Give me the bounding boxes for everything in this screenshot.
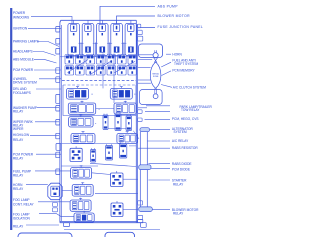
inter-slot wire bbox=[123, 43, 125, 57]
svg-text:ABS PUMP: ABS PUMP bbox=[158, 5, 179, 9]
mini fuse r1c2 bbox=[76, 55, 85, 65]
leader fuel anti theft bbox=[161, 62, 171, 67]
mega fuse element (lens) bbox=[150, 62, 161, 88]
mini fuse r1c4 bbox=[97, 55, 106, 65]
mini fuse r2c3 bbox=[86, 66, 95, 76]
fuse box bottom edge bbox=[60, 220, 138, 222]
wire to ABS PUMP bbox=[100, 6, 155, 24]
fuse block I (fog isolation) bbox=[74, 213, 94, 222]
inter-slot wire bbox=[94, 43, 96, 57]
mini fuse r1c1 bbox=[65, 55, 74, 65]
left edge tab bbox=[56, 39, 60, 45]
svg-text:SYSTEM: SYSTEM bbox=[174, 130, 187, 134]
svg-text:BLOWER MOTOR: BLOWER MOTOR bbox=[158, 14, 191, 18]
svg-text:RABS RESISTOR: RABS RESISTOR bbox=[172, 146, 198, 150]
fuse junction connector tabs bbox=[138, 24, 141, 28]
leader 4 wheel drive bbox=[39, 78, 61, 80]
mini fuse r2c4 bbox=[97, 66, 106, 76]
wire B1-B2 bbox=[96, 108, 114, 110]
svg-text:WIPER: WIPER bbox=[13, 127, 24, 131]
leader horn relay bbox=[26, 183, 48, 185]
maxi fuse slot 1 bbox=[68, 24, 80, 56]
wire through grid b bbox=[113, 54, 115, 104]
mini fuse r2c1 bbox=[65, 66, 74, 76]
horn relay (octagon) bbox=[48, 183, 62, 200]
mini fuse r1c6 bbox=[118, 55, 127, 65]
left edge block tab bbox=[56, 144, 61, 151]
fuse block B1 bbox=[68, 103, 95, 114]
svg-text:FUSE JUNCTION PANEL: FUSE JUNCTION PANEL bbox=[158, 25, 204, 29]
mini relay C2 bbox=[115, 114, 121, 131]
svg-text:FUSE: FUSE bbox=[153, 76, 159, 78]
slot divider line bbox=[60, 56, 136, 58]
svg-text:RELAY: RELAY bbox=[13, 138, 24, 142]
wire to BLOWER MOTOR bbox=[117, 16, 156, 25]
bus cap 1 bbox=[140, 128, 150, 132]
mini relay E3 bbox=[106, 146, 113, 161]
leader fog isolation relay 2 bbox=[26, 224, 59, 226]
leader wiper park relay bbox=[35, 121, 59, 123]
svg-text:TOW RELAY: TOW RELAY bbox=[181, 108, 200, 112]
grid dashed separator bbox=[62, 80, 136, 82]
leader ac relay bbox=[147, 140, 170, 142]
leader park lamp trailer bbox=[146, 105, 170, 107]
mini relay C3 bbox=[126, 116, 132, 131]
bottom tab right bbox=[141, 223, 147, 228]
bus bar left line bbox=[139, 132, 141, 207]
bus bar right line bbox=[146, 132, 148, 207]
leader ignition bbox=[28, 27, 61, 29]
svg-text:IGNITION: IGNITION bbox=[13, 26, 28, 30]
left edge tab bbox=[56, 169, 60, 175]
grid wire diag 1 bbox=[67, 60, 88, 73]
mega fuse top box bbox=[139, 44, 163, 58]
row D wire diag bbox=[133, 131, 139, 139]
fuse block H (fog cont) bbox=[70, 200, 91, 211]
mini fuse r1c5 bbox=[107, 55, 116, 65]
mid horizontal wire bbox=[95, 192, 138, 194]
left edge tab bbox=[56, 133, 60, 139]
mini fuse r1c3 bbox=[86, 55, 95, 65]
wire box to lens a bbox=[138, 66, 151, 68]
leader wiper high/low relay bbox=[30, 134, 59, 136]
relay square F2 bbox=[111, 173, 124, 187]
svg-text:PCM DIODE: PCM DIODE bbox=[172, 168, 190, 172]
row E top wire bbox=[62, 142, 122, 144]
leader pcm memory bbox=[162, 71, 172, 76]
slot top stubs bbox=[73, 20, 75, 24]
wire F to F2 bbox=[92, 173, 111, 175]
left margin stripe bbox=[10, 8, 12, 230]
bottom right edge tab bbox=[138, 219, 143, 222]
mini fuse r2c5 bbox=[107, 66, 116, 76]
svg-text:HIGH/LOW: HIGH/LOW bbox=[13, 133, 29, 137]
lower terminal circle bbox=[153, 94, 158, 99]
inter-slot wire bbox=[80, 43, 82, 57]
left edge tab bbox=[56, 49, 60, 55]
svg-text:THEFT SYSTEM: THEFT SYSTEM bbox=[174, 62, 199, 66]
row C wire bbox=[108, 127, 126, 129]
maxi fuse slot 3 bbox=[97, 24, 109, 56]
right edge clip b bbox=[138, 118, 143, 122]
mini fuse r2c6 bbox=[118, 66, 127, 76]
leader fog lamp isolation relay bbox=[39, 213, 74, 216]
leader power windows bbox=[31, 16, 72, 24]
leader drl and foglamps bbox=[36, 88, 61, 90]
leader rabs resistor bbox=[138, 147, 170, 149]
maxi fuse slot 5 bbox=[125, 24, 137, 56]
right edge clip d bbox=[138, 215, 143, 219]
svg-text:DRIVE SYSTEM: DRIVE SYSTEM bbox=[13, 81, 37, 85]
svg-text:RELAY: RELAY bbox=[13, 157, 24, 161]
leader horn bbox=[166, 53, 171, 55]
bottom tab left bbox=[64, 223, 70, 227]
bus cap 3 bbox=[139, 207, 153, 212]
svg-text:RELAY: RELAY bbox=[13, 110, 24, 114]
svg-text:RELAY: RELAY bbox=[173, 183, 184, 187]
wire relay F2 bbox=[123, 178, 138, 180]
svg-text:FOGLAMPS: FOGLAMPS bbox=[13, 91, 31, 95]
left edge tab bbox=[56, 152, 60, 158]
svg-text:PARKING LAMPS: PARKING LAMPS bbox=[13, 40, 39, 44]
fuse block A1 bbox=[67, 88, 89, 99]
row E wire right bbox=[129, 145, 136, 147]
svg-text:CONT. RELAY: CONT. RELAY bbox=[13, 202, 35, 206]
fuse box outer left wall bbox=[59, 22, 61, 223]
svg-text:ABS MODULE: ABS MODULE bbox=[13, 57, 34, 61]
svg-text:HORN: HORN bbox=[172, 52, 182, 56]
svg-text:RELAY: RELAY bbox=[13, 225, 24, 229]
leader pcm power bbox=[34, 69, 61, 71]
grid wire diag 2 bbox=[90, 61, 111, 74]
leader pcm power relay bbox=[36, 153, 61, 155]
wire box to lens b bbox=[138, 79, 151, 81]
wire box to lens c bbox=[138, 82, 151, 84]
fuse box right wall bbox=[135, 20, 137, 222]
leader pcm diode bbox=[151, 167, 170, 169]
fuse box top edge bbox=[60, 20, 136, 22]
svg-text:MEGA: MEGA bbox=[153, 72, 160, 75]
fuse block B2 bbox=[114, 103, 137, 114]
leader fuel pump relay bbox=[35, 170, 71, 172]
clips below horn relay bbox=[53, 203, 58, 207]
svg-text:PCM MEMORY: PCM MEMORY bbox=[172, 69, 195, 73]
compartment box bbox=[63, 85, 136, 116]
wire below lower box bbox=[138, 107, 147, 109]
mini relay E4 bbox=[120, 144, 127, 158]
leader blower motor relay bbox=[153, 209, 171, 211]
fuse block C1 bbox=[69, 117, 94, 127]
leader washer pump relay bbox=[37, 107, 59, 109]
left edge tab bbox=[56, 106, 60, 112]
bus cap 2 bbox=[139, 165, 151, 170]
fuse block F (fuel pump) bbox=[71, 168, 92, 179]
svg-text:A/C RELAY: A/C RELAY bbox=[172, 139, 189, 143]
mini relay E2 bbox=[91, 150, 96, 163]
svg-text:WINDOWS: WINDOWS bbox=[13, 15, 29, 19]
maxi fuse slot 2 bbox=[82, 24, 94, 56]
svg-text:RELAY: RELAY bbox=[13, 187, 24, 191]
svg-text:HEADLAMPS: HEADLAMPS bbox=[13, 50, 33, 54]
fuse legs lower bbox=[154, 88, 156, 91]
svg-text:PCM POWER: PCM POWER bbox=[13, 68, 34, 72]
row E diag wire bbox=[90, 163, 136, 166]
leader fog lamp cont relay bbox=[38, 201, 70, 203]
bottom long wire bbox=[64, 229, 160, 231]
fuse block A2 bbox=[110, 88, 132, 99]
leader headlamps bbox=[33, 52, 56, 56]
fuse block D1 bbox=[71, 133, 95, 143]
svg-text:RELAY: RELAY bbox=[173, 212, 184, 216]
svg-text:A/C CLUTCH SYSTEM: A/C CLUTCH SYSTEM bbox=[173, 85, 206, 89]
leader rabs diode bbox=[148, 162, 170, 164]
mega fuse lower box bbox=[140, 90, 163, 105]
leader ac clutch bbox=[161, 85, 172, 88]
leader alternator bbox=[150, 129, 170, 131]
relay square I2 bbox=[111, 203, 123, 217]
leader parking lamps bbox=[37, 42, 59, 47]
wire box to legs bbox=[138, 59, 153, 61]
wire box to horn circle bbox=[138, 54, 154, 56]
left edge tab bbox=[56, 77, 60, 83]
right edge clip c bbox=[138, 201, 143, 205]
leader tow relay bbox=[145, 110, 170, 112]
svg-text:RABS DIODE: RABS DIODE bbox=[172, 162, 192, 166]
horn terminal circle bbox=[153, 53, 158, 58]
right edge clip a bbox=[138, 110, 143, 114]
inter-slot wire bbox=[109, 43, 111, 57]
fuse block D2 bbox=[117, 133, 137, 143]
left edge tab bbox=[56, 120, 60, 126]
leader starter relay bbox=[148, 179, 170, 181]
bottom-left connector (cut) bbox=[18, 233, 72, 240]
mini fuse r1c7 bbox=[128, 55, 137, 65]
leader abs module bbox=[34, 59, 57, 63]
svg-text:RELAY: RELAY bbox=[13, 174, 24, 178]
bottom-center connector (cut) bbox=[105, 232, 135, 240]
wire relay I2 bbox=[123, 209, 138, 211]
wire through grid a bbox=[102, 54, 104, 89]
mini relay C1 bbox=[103, 115, 108, 130]
left edge tab bbox=[56, 27, 60, 33]
fuse legs upper X bbox=[154, 58, 157, 63]
leader pcm hego cvs bbox=[145, 119, 171, 121]
grid wire diag 3 bbox=[114, 61, 135, 72]
wire octagon to G bbox=[62, 190, 72, 192]
svg-text:ISOLATION: ISOLATION bbox=[13, 217, 30, 221]
maxi fuse slot 4 bbox=[111, 24, 123, 56]
svg-text:PCM, HEGO, CVS: PCM, HEGO, CVS bbox=[172, 117, 199, 121]
mini fuse r2c7 bbox=[128, 66, 137, 76]
left edge tab bbox=[56, 95, 60, 104]
wire to FUSE JUNCTION PANEL bbox=[138, 27, 155, 29]
fuse block G bbox=[72, 185, 93, 197]
relay E1 bbox=[70, 148, 82, 161]
mini fuse r2c2 bbox=[76, 66, 85, 76]
left edge tab bbox=[56, 68, 60, 74]
